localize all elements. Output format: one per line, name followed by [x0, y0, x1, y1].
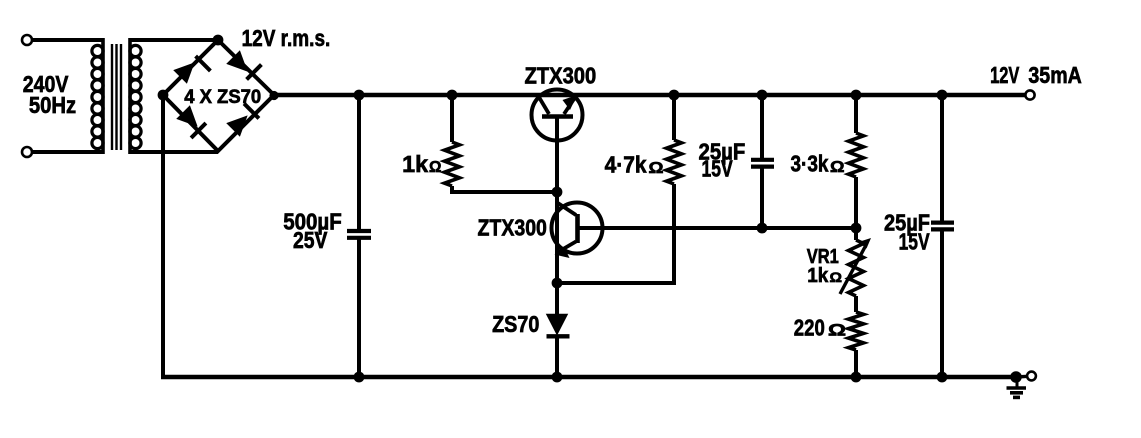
transistor Q1 ZTX300 body	[532, 90, 583, 141]
svg-text:ZS70: ZS70	[492, 311, 539, 337]
wire: Q2 collector/emitter vertical (to node and down)	[555, 192, 559, 283]
wire: left vertex down to bottom rail	[161, 95, 165, 377]
bridge diode D2 (top vertex to right vertex)	[228, 52, 262, 80]
capacitor C2 25uF plates	[751, 160, 774, 167]
bridge diode D4 (bottom vertex to right vertex)	[228, 104, 259, 136]
transformer T1 core	[112, 44, 121, 150]
resistor R1 1k zigzag	[445, 142, 460, 186]
svg-text:1k: 1k	[807, 265, 829, 287]
capacitor C3 25uF plates	[931, 223, 954, 230]
zener diode D5 ZS70 upper lead	[555, 283, 559, 315]
capacitor C1 500uF plates	[347, 231, 371, 238]
resistor R2 4.7k zigzag	[667, 140, 682, 184]
node: rail at R3	[851, 90, 862, 101]
output terminal negative	[1027, 372, 1036, 381]
svg-text:220: 220	[794, 315, 825, 341]
svg-text:12V: 12V	[990, 62, 1020, 88]
label 12V 35mA	[990, 62, 1082, 88]
capacitor C2 25uF lower lead	[760, 169, 764, 229]
bridge frame wires	[163, 40, 274, 151]
node: bottom rail end	[1010, 371, 1022, 383]
wire: R2 bottom down and left to emitter node	[557, 184, 674, 283]
label 12V r.m.s.	[242, 25, 331, 51]
svg-text:35mA: 35mA	[1028, 62, 1081, 88]
wire: R4 bottom to bottom rail	[854, 350, 858, 377]
potentiometer VR1 zigzag	[849, 240, 864, 296]
svg-text:1k: 1k	[402, 151, 428, 177]
node: rail at R2	[669, 90, 680, 101]
label 25uF 15V (C3)	[884, 210, 930, 255]
capacitor C2 25uF upper lead	[760, 95, 764, 158]
zener diode D5 ZS70 triangle	[547, 315, 567, 335]
node: rail at C3	[937, 90, 948, 101]
svg-text:ZTX300: ZTX300	[478, 215, 547, 241]
wire: Q2 base lead to divider tap	[579, 226, 856, 230]
node: bridge left vertex	[158, 90, 169, 101]
wire: Q1 base down	[555, 117, 559, 192]
node: bridge top vertex	[213, 35, 224, 46]
transistor Q1 emitter lead with arrow	[563, 95, 578, 114]
transistor Q2 emitter lead with arrow	[555, 242, 577, 259]
bridge diode D1 (left vertex to top vertex)	[175, 56, 211, 82]
svg-text:15V: 15V	[702, 156, 734, 182]
node: rail at R1	[447, 90, 458, 101]
label ZTX300 (Q1)	[525, 63, 597, 89]
wire: secondary top to bridge top vertex	[130, 38, 218, 42]
capacitor C1 500uF upper lead	[357, 95, 361, 230]
node: bottom rail at R4	[851, 372, 862, 383]
label VR1 1k ohm	[807, 246, 842, 287]
input terminal bottom	[22, 147, 32, 157]
svg-text:3·3k: 3·3k	[791, 151, 829, 177]
transistor Q2 ZTX300 body	[552, 203, 603, 254]
input terminal top	[22, 35, 32, 45]
node: bottom rail at zener	[552, 372, 563, 383]
resistor R3 3.3k upper lead	[854, 95, 858, 133]
resistor R2 4.7k upper lead	[672, 95, 676, 140]
node: rail at C1	[354, 90, 365, 101]
wire: bottom rail	[161, 375, 1016, 379]
wire: bottom rail to output terminal	[1016, 375, 1028, 379]
node: rail at C2	[757, 90, 768, 101]
node: base wire at C2	[757, 223, 768, 234]
node: bottom rail at C1	[354, 372, 365, 383]
zener diode D5 ZS70 cathode bar	[547, 334, 570, 338]
svg-text:4·7k: 4·7k	[605, 152, 647, 178]
svg-text:Ω: Ω	[828, 322, 846, 340]
svg-text:Ω: Ω	[429, 159, 442, 176]
label ZTX300 (Q2)	[478, 215, 547, 241]
svg-text:4 X ZS70: 4 X ZS70	[184, 86, 261, 108]
node: bridge right vertex	[269, 91, 278, 100]
transistor Q2 base bar	[575, 214, 580, 243]
label 3.3k ohm	[791, 151, 845, 177]
label 220 ohm	[794, 315, 846, 341]
bridge diode D3 (left vertex to bottom vertex)	[178, 107, 206, 138]
svg-text:ZTX300: ZTX300	[525, 63, 597, 89]
resistor R1 1k upper lead	[450, 95, 454, 142]
transistor Q1 collector lead	[538, 96, 549, 115]
capacitor C1 500uF lower lead	[357, 240, 361, 378]
wire: top input to transformer primary	[32, 38, 103, 42]
svg-text:Ω: Ω	[830, 269, 843, 285]
label 1k ohm	[402, 151, 441, 177]
node: divider tap (R3/VR1/base wire)	[851, 223, 862, 234]
wire: secondary bottom to bridge bottom vertex	[130, 150, 218, 154]
label 25uF 15V (C2)	[699, 139, 746, 182]
capacitor C3 25uF lower lead	[940, 231, 944, 377]
svg-text:12V r.m.s.: 12V r.m.s.	[242, 25, 331, 51]
transformer T1 secondary winding	[130, 38, 141, 154]
wire: bottom input to transformer primary	[32, 150, 103, 154]
label 240V 50Hz	[23, 71, 76, 118]
svg-text:25V: 25V	[293, 227, 328, 253]
resistor R3 3.3k zigzag	[849, 133, 864, 177]
transistor Q2 collector lead	[557, 203, 576, 216]
svg-text:Ω: Ω	[830, 159, 845, 176]
potentiometer VR1 upper lead	[854, 228, 858, 240]
svg-text:50Hz: 50Hz	[29, 92, 76, 118]
node: Q2 emitter / zener / R2 junction	[552, 278, 563, 289]
label 4 X ZS70	[184, 86, 261, 108]
wire: R3 bottom to divider tap	[854, 177, 858, 228]
wire: R1 bottom to Q1 base node	[452, 186, 557, 192]
resistor R4 220 zigzag	[849, 312, 864, 350]
transformer T1 primary winding	[92, 38, 103, 154]
label ZS70	[492, 311, 539, 337]
wire: VR1 bottom to R4 top	[854, 296, 858, 312]
node: R1/Q1-base/Q2-collector junction	[552, 187, 563, 198]
transistor Q1 base bar	[542, 114, 573, 119]
label 500uF 25V	[283, 209, 342, 254]
ground symbol	[1007, 379, 1027, 397]
svg-text:Ω: Ω	[649, 160, 664, 177]
label 4.7k ohm	[605, 152, 664, 178]
capacitor C3 25uF upper lead	[940, 95, 944, 221]
potentiometer VR1 wiper arrow	[840, 238, 871, 294]
zener diode D5 ZS70 lower lead	[555, 336, 559, 377]
node: bottom rail at C3	[937, 372, 948, 383]
output terminal positive	[1025, 90, 1034, 99]
wire: top rail	[274, 93, 1026, 97]
svg-text:15V: 15V	[899, 229, 930, 255]
